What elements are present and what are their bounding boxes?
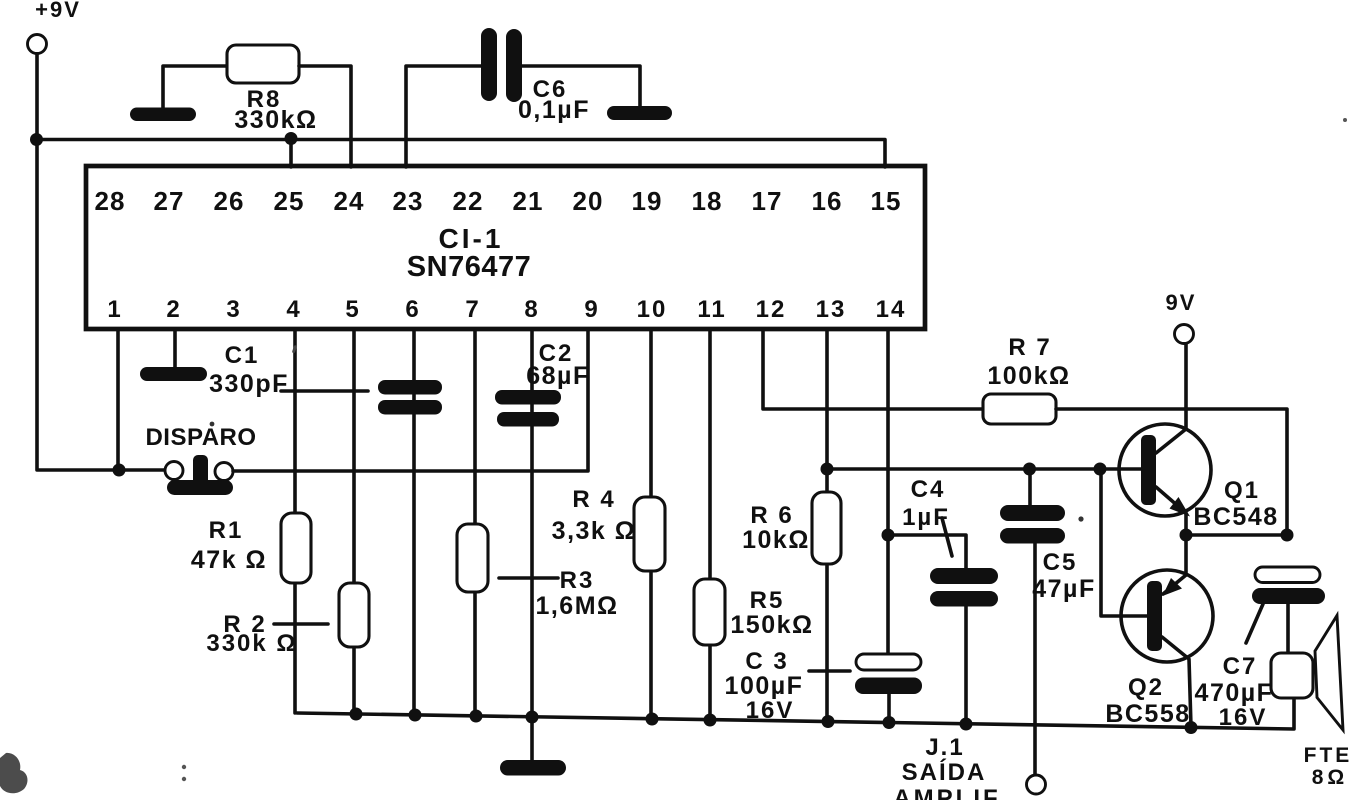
speaker FTE horn — [1315, 616, 1343, 731]
wire: Q1 collector up to 9V terminal — [1156, 344, 1186, 453]
capacitor C3 top plate (hollow) — [856, 654, 921, 670]
svg-text:26: 26 — [214, 186, 245, 216]
resistor R1 — [281, 513, 311, 583]
node: pin 7 / bus — [470, 710, 483, 723]
trigger pushbutton contact bar — [167, 480, 233, 495]
svg-text:7: 7 — [465, 296, 480, 323]
wire: pin 4 down through R1 to bottom bus — [293, 329, 297, 713]
svg-text:2: 2 — [166, 296, 181, 323]
node: Q1 emitter / output — [1180, 529, 1193, 542]
svg-text:3: 3 — [226, 296, 241, 323]
svg-text:9: 9 — [584, 296, 599, 323]
svg-text:330kΩ: 330kΩ — [234, 106, 317, 134]
pointer line C1 — [281, 389, 368, 393]
svg-text:28: 28 — [95, 186, 126, 216]
wire: pin 14 down to C3 top plate — [886, 329, 890, 654]
svg-text:11: 11 — [697, 296, 726, 323]
svg-text:SAÍDA: SAÍDA — [902, 758, 987, 786]
svg-text:4: 4 — [286, 296, 301, 323]
svg-text:68µF: 68µF — [526, 362, 589, 390]
wire: pin 11 down through R5 to bottom bus — [708, 329, 712, 720]
svg-text:9V: 9V — [1166, 290, 1197, 315]
svg-text:150kΩ: 150kΩ — [730, 611, 813, 639]
wire: C6 right plate to ground — [522, 66, 640, 106]
wire: C5 bottom lead down to output jack J1 — [1033, 543, 1037, 775]
svg-text:1,6MΩ: 1,6MΩ — [535, 592, 618, 620]
resistor R5 — [694, 579, 725, 645]
svg-text:R 7: R 7 — [1008, 334, 1051, 361]
pointer line C3 — [809, 669, 850, 673]
svg-text:100kΩ: 100kΩ — [987, 362, 1070, 390]
wire: R7 right lead to output node — [1056, 409, 1287, 535]
resistor R4 — [634, 497, 665, 571]
wire: Q2 collector down to bottom bus — [1162, 637, 1191, 727]
svg-text:CI-1: CI-1 — [439, 223, 504, 254]
svg-text:3,3k Ω: 3,3k Ω — [552, 517, 637, 545]
svg-text:470µF: 470µF — [1195, 679, 1274, 707]
node: pin 14 / C4 tap — [882, 529, 895, 542]
svg-text:C5: C5 — [1043, 549, 1078, 576]
svg-text:C1: C1 — [225, 342, 260, 369]
svg-text:5: 5 — [345, 296, 360, 323]
svg-text:Q1: Q1 — [1224, 477, 1260, 504]
resistor R7 — [983, 394, 1056, 424]
svg-text:8Ω: 8Ω — [1312, 766, 1349, 789]
Q2 emitter arrowhead — [1163, 578, 1183, 596]
svg-text:10kΩ: 10kΩ — [742, 526, 810, 554]
node: pin 11 / bus — [704, 714, 717, 727]
pointer line R2 — [274, 622, 328, 626]
bottom bus (ground rail) — [297, 698, 1294, 729]
ground bar (C6 right lead) — [607, 106, 672, 120]
pointer line R3 — [499, 576, 558, 580]
svg-text:19: 19 — [632, 186, 663, 216]
svg-text:15: 15 — [871, 186, 902, 216]
capacitor C6 left plate — [481, 28, 497, 101]
svg-text:DISPARO: DISPARO — [145, 424, 256, 451]
svg-text:13: 13 — [816, 296, 847, 323]
wire: C5 top lead from base line — [1028, 469, 1032, 506]
wire: pin 7 down through R3 to bottom bus — [473, 329, 477, 716]
wire: pin 6 down through C1 to bottom bus — [412, 329, 416, 715]
ground bar (R8 left lead) — [130, 108, 196, 122]
resistor R6 — [812, 492, 841, 564]
node: pin 13 / bus — [822, 715, 835, 728]
wire: pin 12 down and right to R7 — [763, 329, 983, 409]
svg-text:C7: C7 — [1223, 653, 1258, 680]
capacitor C7 bottom plate — [1252, 588, 1325, 604]
9V terminal — [1175, 325, 1194, 344]
svg-text:C4: C4 — [911, 476, 946, 503]
svg-text:20: 20 — [573, 186, 604, 216]
svg-text:47µF: 47µF — [1032, 575, 1095, 603]
svg-text:16: 16 — [812, 186, 843, 216]
svg-text:BC558: BC558 — [1105, 700, 1190, 728]
capacitor C1 bottom plate — [378, 400, 442, 415]
wire: Q2 emitter diagonal — [1163, 575, 1186, 594]
svg-text:1: 1 — [107, 296, 122, 323]
svg-text:J.1: J.1 — [925, 734, 964, 761]
capacitor C4 bottom plate — [930, 591, 998, 607]
wire: pin 14 node right and down to C4 — [888, 535, 966, 569]
node: Q2 base branch on base line — [1094, 463, 1107, 476]
svg-text:BC548: BC548 — [1193, 503, 1278, 531]
svg-text:R 4: R 4 — [572, 486, 615, 513]
capacitor C5 top plate — [1000, 505, 1065, 521]
wire: pin 8 down through C2 to bottom bus and ground bar — [530, 329, 534, 760]
trigger pushbutton plunger — [193, 455, 208, 487]
scan speck above DISPARO — [210, 422, 215, 427]
svg-text:22: 22 — [453, 186, 484, 216]
wire: pin 10 down through R4 to bottom bus — [649, 329, 653, 719]
svg-text:23: 23 — [393, 186, 424, 216]
wire: branch down to Q2 base — [1101, 469, 1147, 616]
capacitor C5 bottom plate — [1000, 528, 1065, 544]
speaker FTE driver — [1271, 653, 1313, 698]
svg-text:27: 27 — [154, 186, 185, 216]
node: R7 / C7 branch — [1281, 529, 1294, 542]
svg-text:FTE: FTE — [1304, 744, 1353, 767]
wire: C3 bottom plate to bottom bus — [887, 694, 891, 723]
+9V terminal — [28, 35, 47, 54]
wire: pin 5 down through R2 to bottom bus — [352, 329, 356, 714]
svg-text:25: 25 — [274, 186, 305, 216]
node: pin 8 / bus — [526, 711, 539, 724]
node: C4 / bus — [960, 718, 973, 731]
transistor Q1 (BC548) body — [1119, 424, 1211, 516]
capacitor C4 top plate — [930, 568, 998, 584]
svg-text:SN76477: SN76477 — [407, 251, 531, 283]
wire: ground bar up to R8 left lead — [163, 66, 227, 108]
svg-text:12: 12 — [756, 296, 787, 323]
svg-text:C 3: C 3 — [745, 648, 788, 675]
node: pin 6 / bus — [409, 709, 422, 722]
node: pin 25 tap on +9V bus — [285, 132, 298, 145]
svg-text:10: 10 — [637, 296, 668, 323]
node: +9V rail left junction — [30, 133, 43, 146]
svg-text:R5: R5 — [750, 587, 785, 614]
capacitor C7 top plate (hollow) — [1255, 567, 1320, 583]
svg-text:8: 8 — [524, 296, 539, 323]
trigger pushbutton left terminal — [165, 462, 183, 480]
node: C3 / bus — [883, 716, 896, 729]
svg-text:330k Ω: 330k Ω — [206, 630, 297, 657]
wire: pin 25 riser — [289, 139, 293, 167]
output jack J1 terminal — [1027, 775, 1046, 794]
node: pin 1 / trigger line junction — [113, 464, 126, 477]
wire: pin 23 riser up to C6 left plate — [406, 66, 481, 167]
scan speck: colon near bottom left — [182, 765, 186, 769]
ground bar (pin 8 below bus) — [500, 760, 566, 776]
wire: +9V top bus to pin 15 — [36, 140, 885, 168]
wire: trigger line from button to pin 9 — [233, 469, 588, 473]
capacitor C1 top plate — [378, 380, 442, 395]
transistor Q2 base bar — [1147, 581, 1162, 651]
svg-text:R1: R1 — [209, 517, 244, 544]
ground bar (pin 2) — [140, 367, 207, 381]
node: C5 tap on base line — [1023, 463, 1036, 476]
pointer line C7 — [1246, 604, 1263, 643]
wire: Q1 emitter down to output node — [1156, 487, 1186, 535]
svg-text:330pF: 330pF — [209, 370, 289, 398]
capacitor C2 top plate — [495, 390, 561, 405]
Q1 emitter arrowhead — [1170, 497, 1191, 517]
wire: C4 bottom plate to bottom bus — [964, 606, 968, 724]
wire: output node line to R7/C7 branch — [1186, 533, 1287, 537]
wire: +9V terminal down left side to trigger line — [37, 54, 165, 470]
wire: trigger/base line from pin 13 to Q1 base — [827, 467, 1142, 471]
svg-text:+9V: +9V — [35, 0, 81, 22]
transistor Q1 base bar — [1141, 435, 1156, 505]
svg-text:AMPLIF: AMPLIF — [893, 785, 1000, 800]
node: pin 13 on base line — [821, 463, 834, 476]
transistor Q2 (BC558) body — [1121, 570, 1213, 662]
wire: C7 bottom plate down to speaker — [1286, 604, 1290, 654]
svg-text:Q2: Q2 — [1128, 674, 1164, 701]
svg-text:6: 6 — [405, 296, 420, 323]
svg-text:24: 24 — [334, 186, 365, 216]
wire: pin 2 down to ground — [173, 329, 177, 368]
wire: output node down to Q2 emitter — [1184, 535, 1188, 575]
wire: pin 1 down to trigger line — [116, 329, 120, 470]
svg-text:47k Ω: 47k Ω — [191, 546, 267, 574]
wire: pin 13 down through R6 to bottom bus — [825, 329, 829, 722]
resistor R3 — [457, 524, 488, 592]
node: pin 5 / bus — [350, 708, 363, 721]
svg-text:100µF: 100µF — [725, 672, 804, 700]
capacitor C2 bottom plate — [497, 412, 559, 427]
capacitor C6 right plate — [506, 29, 522, 102]
wire: pin 9 down to trigger line — [586, 329, 590, 470]
scan speck near C5 — [1078, 516, 1083, 521]
svg-text:18: 18 — [692, 186, 723, 216]
wire: R8 right lead down to pin 24 — [299, 66, 351, 167]
svg-text:R 6: R 6 — [750, 502, 793, 529]
trigger pushbutton right terminal — [215, 463, 233, 481]
resistor R2 — [339, 583, 369, 647]
svg-text:0,1µF: 0,1µF — [518, 96, 590, 124]
svg-text:17: 17 — [752, 186, 783, 216]
scan smudge bottom left — [0, 753, 27, 793]
pointer line C4 — [942, 518, 952, 556]
scan speck near pin 4 — [292, 345, 297, 354]
svg-text:21: 21 — [513, 186, 544, 216]
resistor R8 — [227, 45, 299, 83]
node: pin 10 / bus — [646, 713, 659, 726]
capacitor C3 bottom plate — [855, 678, 922, 695]
IC CI-1 SN76477 body — [86, 166, 925, 329]
svg-text:R3: R3 — [560, 567, 595, 594]
scan speck top right — [1343, 118, 1347, 122]
node: Q2 collector / bus — [1185, 721, 1198, 734]
svg-text:14: 14 — [876, 296, 907, 323]
